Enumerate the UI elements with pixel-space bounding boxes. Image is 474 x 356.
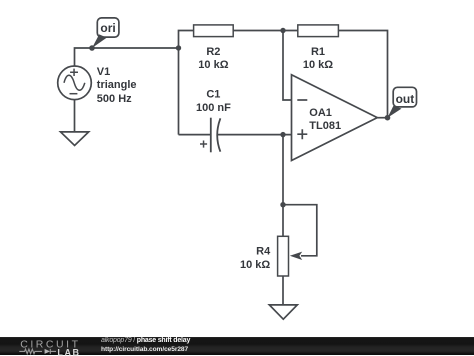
svg-text:OA1: OA1 [309, 107, 332, 119]
svg-text:10 kΩ: 10 kΩ [198, 59, 228, 71]
svg-text:V1: V1 [97, 66, 110, 78]
svg-text:R1: R1 [311, 46, 325, 58]
svg-text:triangle: triangle [97, 79, 137, 91]
svg-text:10 kΩ: 10 kΩ [303, 59, 333, 71]
svg-text:100 nF: 100 nF [196, 102, 231, 114]
svg-text:10 kΩ: 10 kΩ [240, 259, 270, 271]
svg-text:C1: C1 [206, 89, 220, 101]
svg-text:ori: ori [100, 21, 115, 35]
svg-text:LAB: LAB [57, 347, 80, 355]
svg-text:500 Hz: 500 Hz [97, 93, 132, 105]
svg-text:R4: R4 [256, 246, 271, 258]
svg-text:TL081: TL081 [309, 120, 341, 132]
svg-text:out: out [396, 92, 415, 106]
svg-text:R2: R2 [206, 46, 220, 58]
